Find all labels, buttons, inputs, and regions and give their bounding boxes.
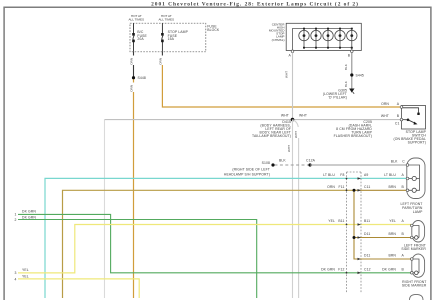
- wire BRN bus inside connector: [354, 190, 412, 259]
- wire ORN left fuse vertical: [133, 52, 135, 78]
- svg-text:B11: B11: [338, 219, 344, 223]
- lamp 4 partial (bottom edge): [410, 294, 424, 300]
- lamp right front side marker: [412, 254, 425, 277]
- svg-text:DK GRN: DK GRN: [22, 215, 36, 219]
- svg-text:WHT: WHT: [287, 145, 291, 152]
- CHMSL internal bottom bus wire: [304, 48, 352, 51]
- svg-text:ORN: ORN: [129, 85, 133, 92]
- svg-text:4: 4: [14, 277, 16, 281]
- ground G305: [349, 89, 354, 93]
- svg-text:BLK: BLK: [391, 159, 398, 163]
- label ORN (rotated, upper): [129, 56, 135, 66]
- svg-text:SIDE MARKER: SIDE MARKER: [401, 247, 426, 251]
- CHMSL box: [286, 23, 361, 50]
- svg-text:LAMP: LAMP: [413, 210, 423, 214]
- svg-text:LT BLU: LT BLU: [323, 173, 335, 177]
- svg-text:BRN: BRN: [388, 254, 396, 258]
- svg-text:F11: F11: [339, 185, 345, 189]
- wire WHT continuing down from junction: [292, 120, 294, 298]
- node S448: [132, 76, 135, 79]
- switch internal arm from B: [403, 119, 408, 121]
- label ORN (rotated): [158, 56, 164, 66]
- svg-text:S448: S448: [138, 76, 146, 80]
- CHMSL pin B: [351, 50, 354, 53]
- switch pin B circle: [400, 118, 403, 121]
- switch pin A circle: [400, 106, 403, 109]
- svg-text:DK GRN: DK GRN: [321, 267, 335, 271]
- connector pass-through marks: [346, 177, 361, 274]
- svg-text:B11: B11: [364, 219, 370, 223]
- svg-text:DK GRN: DK GRN: [382, 267, 396, 271]
- svg-text:15A: 15A: [168, 37, 175, 41]
- svg-text:S108: S108: [262, 161, 270, 165]
- wire WHT from CHMSL pin A down: [292, 53, 294, 120]
- wire BLK dashed segment: [275, 164, 310, 166]
- CHMSL bulb 4: [335, 29, 345, 48]
- CHMSL pin A: [291, 50, 294, 53]
- svg-text:WHT: WHT: [381, 114, 389, 118]
- CHMSL bulb 3: [323, 29, 333, 48]
- svg-text:HEADLAMP S/H SUPPORT): HEADLAMP S/H SUPPORT): [224, 172, 270, 176]
- svg-text:TAILLAMP BREAKOUT): TAILLAMP BREAKOUT): [252, 134, 291, 138]
- svg-text:3: 3: [14, 271, 16, 275]
- wire WHT branch curve down: [293, 120, 299, 298]
- svg-text:D11: D11: [364, 232, 370, 236]
- svg-text:A9: A9: [364, 173, 368, 177]
- wire BRN right segment: [354, 189, 408, 191]
- svg-text:BRN: BRN: [388, 232, 396, 236]
- svg-text:C11: C11: [364, 185, 370, 189]
- svg-text:'D' PILLAR): 'D' PILLAR): [328, 96, 347, 100]
- svg-text:C1: C1: [395, 121, 400, 125]
- svg-text:DK GRN: DK GRN: [22, 210, 36, 214]
- svg-text:1: 1: [14, 213, 16, 217]
- svg-text:ORN: ORN: [158, 58, 162, 65]
- svg-text:ORN: ORN: [381, 102, 389, 106]
- node S108: [271, 163, 274, 166]
- svg-text:SIDE MARKER: SIDE MARKER: [402, 284, 427, 288]
- node S445: [350, 73, 353, 76]
- CHMSL bulb 5: [347, 29, 357, 48]
- svg-text:YEL: YEL: [328, 219, 335, 223]
- fuse STOP LAMP FUSE 15A: [162, 23, 163, 52]
- svg-text:YEL: YEL: [22, 274, 29, 278]
- svg-text:C12: C12: [364, 267, 371, 271]
- node D415 junction: [291, 118, 295, 122]
- svg-text:ALL TIMES: ALL TIMES: [158, 18, 174, 22]
- svg-text:20A: 20A: [137, 37, 144, 41]
- svg-text:ORN: ORN: [129, 58, 133, 65]
- CHMSL bulb 2: [311, 29, 321, 48]
- svg-text:WHT: WHT: [294, 131, 298, 138]
- svg-text:BLK: BLK: [279, 158, 286, 162]
- wire WHT horizontal to switch + branch down at left: [104, 120, 106, 298]
- label ORN (rotated, below S448): [129, 83, 135, 93]
- connector C100 dashed lines: [347, 171, 362, 173]
- svg-text:BLK: BLK: [344, 80, 348, 87]
- svg-text:D11: D11: [364, 254, 370, 258]
- wire ORN right fuse to stop lamp switch: [161, 52, 163, 65]
- wire BRN to side marker B: [354, 237, 412, 239]
- stop lamp switch box: [402, 106, 426, 130]
- svg-text:WHT: WHT: [281, 113, 289, 117]
- node C12A: [308, 163, 311, 166]
- svg-text:FLASHER BREAKOUT): FLASHER BREAKOUT): [334, 134, 372, 138]
- wire LT BLU horizontal + vertical down: [45, 178, 408, 298]
- svg-text:BLOCK: BLOCK: [207, 28, 220, 32]
- svg-text:(CHMSL): (CHMSL): [272, 38, 285, 42]
- svg-text:C12A: C12A: [306, 158, 316, 162]
- wire ORN/BRN horizontal + vertical down: [63, 190, 355, 298]
- svg-text:2: 2: [14, 218, 16, 222]
- wire BLK solid to lamp: [310, 164, 408, 166]
- lamp left front side marker: [412, 221, 425, 243]
- CHMSL bulb 1: [299, 29, 309, 48]
- svg-text:BLK: BLK: [344, 63, 348, 70]
- svg-text:F12: F12: [338, 267, 344, 271]
- svg-text:YEL: YEL: [389, 219, 396, 223]
- fuse B/C FUSE 20A: [133, 23, 134, 52]
- label WHT rotated on right branch: [294, 127, 300, 138]
- svg-text:SUPPORT): SUPPORT): [408, 140, 426, 144]
- svg-text:BRN: BRN: [388, 185, 396, 189]
- svg-text:ALL TIMES: ALL TIMES: [128, 18, 144, 22]
- svg-text:YEL: YEL: [22, 268, 29, 272]
- svg-text:F8: F8: [340, 173, 344, 177]
- svg-text:S445: S445: [356, 73, 364, 77]
- svg-text:ORN: ORN: [327, 185, 335, 189]
- fuse block dashed box: [130, 23, 206, 52]
- svg-text:(RIGHT SIDE OF LEFT: (RIGHT SIDE OF LEFT: [232, 168, 270, 172]
- wire BLK from CHMSL pin B down to ground: [351, 53, 353, 89]
- svg-text:WHT: WHT: [285, 71, 289, 78]
- CHMSL internal top bus wire: [293, 29, 352, 51]
- svg-text:LT BLU: LT BLU: [384, 173, 396, 177]
- switch internal contact from A: [403, 108, 419, 113]
- lamp left front park/turn: [407, 158, 425, 199]
- svg-text:WHT: WHT: [299, 113, 307, 117]
- svg-text:C: C: [402, 159, 405, 163]
